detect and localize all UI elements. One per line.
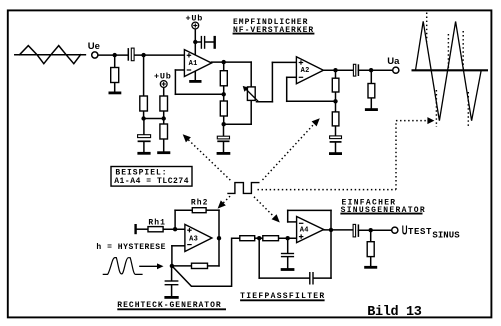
node Ua shunt: [369, 68, 373, 72]
wire A1 output to pot top corner: [212, 61, 252, 63]
capacitor C1 input coupling: [128, 48, 134, 61]
wire C5 to Ua terminal: [358, 69, 392, 71]
wire R13 to ground: [370, 257, 372, 266]
supply symbol +Ub bias: [160, 81, 167, 88]
wire Rh2 corner down to A3 out: [218, 210, 220, 238]
input triangle waveform: [20, 46, 81, 64]
wire tp node1 down: [258, 238, 260, 278]
capacitor C2 bias electrolytic: [138, 135, 151, 142]
underline TIEFPASSFILTER: [240, 299, 325, 301]
dotted marker rise2: [447, 34, 449, 69]
wire R1 to ground: [114, 83, 116, 92]
wire A4 fb right down: [330, 210, 332, 230]
wire R4 to ground: [163, 139, 165, 151]
wire A2 out node down to R7: [335, 70, 337, 78]
potentiometer P1 body: [247, 87, 255, 101]
wire A1 - input down: [174, 70, 176, 94]
wire C10 to Utest terminal: [358, 229, 391, 231]
output waveform baseline: [412, 69, 489, 71]
ground Ua shunt: [365, 108, 378, 111]
terminal Utest: [392, 227, 398, 233]
capacitor C4 A1 divider electrolytic: [217, 136, 229, 141]
resistor R6 A1 divider lower: [220, 101, 227, 116]
node A3 + input: [173, 227, 177, 231]
svg-text:Ue: Ue: [88, 41, 100, 52]
wire C7 to ground: [171, 285, 173, 296]
wire supply node to C3: [195, 41, 201, 43]
hysteresis input curve: [103, 258, 143, 275]
svg-text:Rh2: Rh2: [191, 199, 209, 208]
wire C2 to ground: [143, 142, 145, 152]
wire A3 + node up: [174, 210, 176, 229]
dotted ray to A4: [254, 197, 274, 217]
resistor Rh2 body: [192, 208, 206, 213]
wire A4 - up: [287, 210, 289, 222]
ground input shunt: [109, 92, 122, 95]
op-amp A4: [297, 217, 324, 243]
ground A3 timing capacitor: [164, 296, 178, 299]
beispiel box: [111, 167, 192, 187]
wire A1 - input stub: [175, 69, 184, 71]
wire node2 down to R2: [143, 55, 145, 96]
arrowhead to A4: [272, 214, 280, 222]
node bias left: [141, 116, 145, 120]
wire A2 - input stub: [287, 76, 297, 78]
resistor R2 bias upper: [140, 96, 148, 111]
ground A1 divider capacitor: [217, 152, 231, 155]
input triangle waveform baseline: [15, 54, 86, 56]
resistor R11 lowpass first: [240, 236, 255, 241]
wire Rh2 to right corner: [206, 209, 219, 211]
wire Ue terminal to C1: [98, 54, 127, 56]
output waveform: [416, 21, 482, 120]
wire node3 to C2: [143, 119, 145, 135]
wire tp node2 down to C8: [287, 238, 289, 253]
wire R9 to ground: [370, 98, 372, 109]
dotted marker valley1: [435, 90, 437, 127]
wire tp fb up to A4 out: [330, 230, 332, 278]
wire pot wiper horizontal: [257, 101, 273, 103]
arrowhead to Rh2: [218, 200, 226, 208]
supply symbol +Ub A1: [192, 22, 199, 29]
dotted ray to Rh2: [223, 196, 230, 203]
resistor R7 A2 divider upper: [332, 78, 339, 92]
capacitor C6 A2 divider electrolytic: [330, 136, 342, 142]
wire A4 fb top: [288, 209, 331, 211]
wire A2 fb to divider node: [287, 100, 336, 102]
svg-text:+Ub: +Ub: [154, 71, 172, 81]
wire +Ub to R3: [163, 87, 165, 96]
capacitor C10 Utest coupling electrolytic: [353, 224, 358, 237]
wire tp R12 to A4 + input: [279, 237, 297, 239]
svg-text:TEST: TEST: [408, 227, 432, 237]
node after C1: [141, 53, 145, 57]
wire C4 to ground: [223, 142, 225, 152]
resistor R5 A1 divider upper: [220, 71, 227, 86]
wire +Ub supply to A1 top: [194, 29, 196, 54]
ground bias resistor: [157, 151, 170, 154]
svg-text:h = HYSTERESE: h = HYSTERESE: [96, 243, 166, 252]
wire wiper up: [271, 62, 273, 101]
node supply cap: [193, 40, 197, 44]
svg-text:A3: A3: [189, 236, 198, 244]
node input shunt junction: [113, 53, 117, 57]
svg-text:U: U: [402, 223, 408, 237]
svg-text:A1: A1: [189, 60, 198, 68]
capacitor C9 lowpass feedback: [310, 272, 313, 285]
resistor R12 lowpass second: [263, 236, 279, 241]
wire pot top corner down to pot: [250, 62, 252, 87]
dotted marker fall2: [462, 31, 464, 69]
resistor R4 bias lower: [160, 124, 168, 139]
wire A3 node diagonal: [173, 238, 240, 286]
capacitor C8 lowpass shunt: [281, 254, 294, 257]
dotted marker peak1: [426, 13, 428, 42]
wire A1 out node down to R5: [223, 62, 225, 71]
wire R6 to bottom node: [223, 116, 225, 124]
wire C8 to ground: [287, 257, 289, 268]
wire A2 - input down: [286, 77, 288, 101]
ground Utest shunt: [364, 266, 377, 269]
wire A3 - input stub: [172, 245, 185, 247]
op-amp A2: [296, 57, 323, 84]
svg-text:A2: A2: [301, 67, 310, 75]
wire R2 to node3: [143, 111, 145, 119]
terminal Ua: [393, 67, 399, 73]
node A3 - input: [170, 264, 174, 268]
arrowhead to output wave: [427, 117, 434, 124]
resistor Rh1 body: [148, 227, 163, 232]
resistor R8 A2 divider lower: [332, 112, 339, 126]
resistor R3 bias from +Ub: [160, 96, 168, 111]
dotted ray vertical up: [395, 121, 397, 190]
wire R5 to fb node: [223, 86, 225, 101]
wire tp bottom fb right: [314, 277, 332, 279]
wire A4 - stub: [288, 221, 297, 223]
dotted ray to output wave: [396, 120, 428, 122]
node lowpass 1: [257, 236, 261, 240]
wire A3 - node to C7: [171, 266, 173, 281]
wire A4 output to C10: [324, 229, 353, 231]
svg-text:Bild 13: Bild 13: [367, 305, 422, 320]
capacitor C7 A3 timing: [165, 281, 179, 285]
dotted ray to A1 divider: [188, 140, 231, 181]
wire C6 to ground: [335, 143, 337, 153]
wire R8 to C6: [335, 126, 337, 136]
resistor R13 Utest shunt: [367, 242, 374, 257]
potentiometer P1 wiper arrow: [243, 86, 259, 102]
wire A3 out down: [218, 238, 220, 266]
svg-text:Rh1: Rh1: [148, 218, 166, 227]
node A1 feedback: [222, 92, 226, 96]
capacitor C5 Ua coupling electrolytic: [353, 64, 358, 76]
dotted marker valley2: [467, 92, 469, 128]
resistor R1 input shunt: [111, 68, 119, 83]
dotted ray right horizontal: [258, 189, 397, 191]
wire bottom node to C4: [223, 124, 225, 136]
wire Rh1 to A3 + input: [163, 228, 185, 230]
ground A1 V-: [189, 80, 201, 83]
wire node4 to R4: [163, 119, 165, 125]
op-amp A3: [185, 224, 212, 251]
wire Utest node down to R13: [370, 230, 372, 242]
arrowhead to A2 divider: [312, 118, 320, 126]
wire node3 to node4: [144, 118, 164, 120]
wire C1 to A1 + input: [135, 54, 185, 56]
wire fb to fb node: [175, 93, 223, 95]
square wave symbol: [227, 183, 259, 194]
wire R3 to node4: [163, 111, 165, 119]
wire R10 to A3 out vertical: [208, 265, 220, 267]
wire tp bottom fb left: [259, 277, 309, 279]
svg-text:Ua: Ua: [387, 56, 400, 67]
node A2 output: [333, 68, 337, 72]
wire R7 to divider node: [335, 92, 337, 112]
terminal Ue: [92, 52, 98, 58]
ground A2 divider capacitor: [329, 152, 342, 155]
node lowpass 2: [286, 236, 290, 240]
resistor R9 Ua shunt: [368, 84, 375, 98]
node A3 output: [217, 236, 221, 240]
arrowhead to A1 divider: [183, 134, 191, 142]
underline SINUSGENERATOR: [340, 213, 422, 215]
svg-text:A4: A4: [300, 227, 309, 235]
node A2 feedback: [333, 99, 337, 103]
svg-text:A1-A4 = TLC274: A1-A4 = TLC274: [114, 177, 189, 186]
wire Rh1 bar to Rh1: [137, 228, 148, 230]
node bias right: [162, 116, 166, 120]
wire node1 down to R1: [114, 55, 116, 67]
ground lowpass capacitor: [281, 268, 295, 271]
resistor R10 A3 feedback: [192, 263, 208, 268]
wire Ua node down to R9: [370, 70, 372, 83]
underline RECHTECK-GENERATOR: [117, 308, 226, 310]
terminal bar Rh1: [134, 224, 136, 234]
wire A2 output to C5: [323, 69, 353, 71]
node A1 divider bottom: [222, 122, 226, 126]
ground bias capacitor: [137, 152, 150, 155]
node A4 output: [329, 228, 333, 232]
underline NF-VERSTAERKER: [233, 33, 315, 35]
wire up node to Rh2: [175, 209, 192, 211]
wire tp node1 wires: [255, 237, 263, 239]
wire C3 to end bar: [205, 41, 214, 43]
dotted ray to A2 divider: [263, 124, 315, 180]
op-amp A1: [184, 50, 211, 77]
node A1 output: [222, 60, 226, 64]
wire A1 V- pin to ground: [194, 71, 196, 80]
node Utest shunt: [369, 228, 373, 232]
svg-text:SINUS: SINUS: [432, 231, 460, 241]
hysteresis arrow to A3 node: [139, 263, 163, 269]
wire pot bottom corner up to pot: [250, 100, 252, 124]
wire A3 - input down to node: [171, 246, 173, 266]
capacitor C3 supply decoupling: [201, 36, 214, 49]
wire bottom node to pot bottom corner: [224, 123, 252, 125]
svg-text:+Ub: +Ub: [186, 13, 204, 23]
wire wiper to A2 + input: [272, 61, 296, 63]
wire A3 - node to R10: [172, 265, 192, 267]
